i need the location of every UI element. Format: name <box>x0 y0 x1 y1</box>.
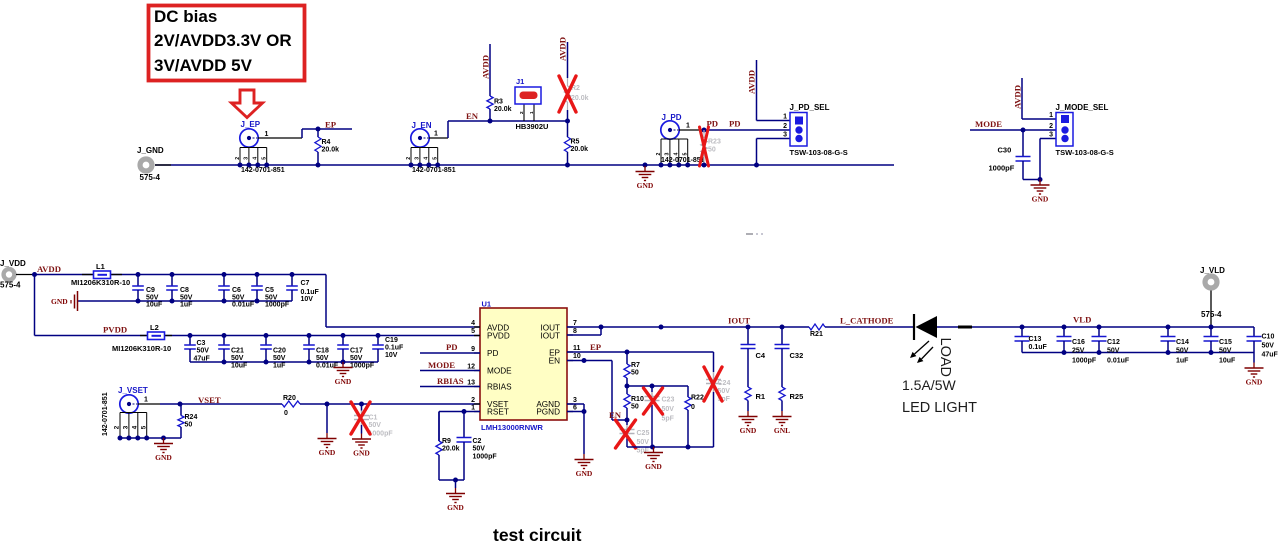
svg-text:0.01uF: 0.01uF <box>232 302 255 309</box>
svg-text:2: 2 <box>656 152 662 155</box>
svg-text:20.0k: 20.0k <box>571 146 589 153</box>
svg-text:TSW-103-08-G-S: TSW-103-08-G-S <box>790 148 848 157</box>
svg-text:TSW-103-08-G-S: TSW-103-08-G-S <box>1056 148 1114 157</box>
svg-text:3: 3 <box>573 397 577 404</box>
wire VLD cap bank bottom rail <box>1022 352 1254 354</box>
svg-text:C14: C14 <box>1176 339 1189 346</box>
svg-text:13: 13 <box>467 380 475 387</box>
svg-text:20.0k: 20.0k <box>494 106 512 113</box>
ground GND under EP network <box>653 447 655 453</box>
power AVDD above J_PD_SEL <box>756 60 758 121</box>
J_VSET footprint 142-0701-851 <box>120 412 147 414</box>
svg-text:4: 4 <box>131 425 138 429</box>
LED emission arrows <box>915 341 930 354</box>
wire VLD rail <box>1022 326 1254 328</box>
capacitor C13 <box>1020 325 1025 330</box>
svg-text:C23: C23 <box>662 397 675 404</box>
svg-text:575-4: 575-4 <box>140 173 161 182</box>
connector J_VSET <box>120 395 138 413</box>
capacitor C23 crossed out <box>651 386 653 392</box>
J_EP footprint 142-0701-851 <box>240 147 267 149</box>
svg-text:5: 5 <box>140 425 147 429</box>
svg-text:GND: GND <box>51 297 68 306</box>
wire AVDD to J_PD_SEL pin1 <box>757 120 791 122</box>
wire IOUT from pins 7/8 <box>567 326 601 328</box>
node VSET junction <box>178 402 183 407</box>
svg-text:50: 50 <box>708 147 716 154</box>
capacitor C32 <box>780 325 785 330</box>
svg-text:5pF: 5pF <box>662 416 675 423</box>
wire EP net from pin11 <box>567 351 714 353</box>
svg-text:1000pF: 1000pF <box>265 302 290 309</box>
svg-text:C20: C20 <box>273 348 286 355</box>
power AVDD above R2 <box>567 42 569 78</box>
ground GND below VSET wire <box>326 433 328 439</box>
connector J_GND <box>140 159 152 171</box>
node EN/R3 junction <box>488 119 493 124</box>
svg-text:C21: C21 <box>231 348 244 355</box>
svg-text:1000pF: 1000pF <box>1072 358 1097 365</box>
svg-text:3: 3 <box>415 157 421 160</box>
wire C10 to GND <box>1253 353 1255 363</box>
svg-text:1.5A/5W: 1.5A/5W <box>902 377 956 393</box>
svg-text:5: 5 <box>683 152 689 155</box>
svg-text:U1: U1 <box>482 300 492 309</box>
svg-text:AVDD: AVDD <box>37 264 61 274</box>
svg-text:1: 1 <box>529 111 534 114</box>
svg-text:2: 2 <box>235 157 241 160</box>
resistor R4 <box>317 129 319 137</box>
svg-text:PD: PD <box>487 349 498 358</box>
resistor R20 <box>282 401 300 407</box>
wire J_VLD to VLD rail <box>1210 291 1212 328</box>
svg-text:0: 0 <box>284 410 288 417</box>
connector J_EN <box>411 129 429 147</box>
resistor R23 crossed out <box>703 130 705 138</box>
svg-text:RSET: RSET <box>487 408 509 417</box>
svg-text:50V: 50V <box>316 355 329 362</box>
svg-text:1000pF: 1000pF <box>473 454 498 461</box>
svg-text:C5: C5 <box>265 287 274 294</box>
wire J_EN pin1 to EN net <box>429 137 449 139</box>
svg-text:C13: C13 <box>1029 336 1042 343</box>
ground GND under J_VSET <box>163 438 165 444</box>
svg-text:J_EN: J_EN <box>412 121 432 130</box>
svg-text:50V: 50V <box>273 355 286 362</box>
svg-text:50V: 50V <box>1219 348 1232 355</box>
svg-text:LMH13000RNWR: LMH13000RNWR <box>481 423 543 432</box>
ground GNL under R25 <box>781 411 783 417</box>
capacitor C30 <box>1022 130 1024 157</box>
svg-text:575-4: 575-4 <box>0 281 21 290</box>
ground GND under R1 <box>747 411 749 417</box>
svg-text:10uF: 10uF <box>231 363 248 370</box>
jumper J1 HB3902U <box>523 104 525 121</box>
svg-text:GND: GND <box>1032 195 1049 204</box>
svg-text:J_VSET: J_VSET <box>118 386 148 395</box>
svg-text:AVDD: AVDD <box>558 37 568 61</box>
svg-text:8: 8 <box>573 328 577 335</box>
svg-text:C16: C16 <box>1072 339 1085 346</box>
capacitor C24 crossed out <box>713 352 715 372</box>
wire PVDD rail <box>35 335 481 337</box>
svg-text:R7: R7 <box>631 362 640 369</box>
wire C30 to GND <box>1023 179 1040 181</box>
svg-text:10V: 10V <box>385 352 398 359</box>
svg-text:1: 1 <box>471 405 475 412</box>
svg-text:C25: C25 <box>637 430 650 437</box>
svg-text:142-0701-851: 142-0701-851 <box>241 167 285 174</box>
wire J_MODE_SEL pin3 to GND <box>1040 138 1056 140</box>
svg-text:0.01uF: 0.01uF <box>1107 358 1130 365</box>
svg-text:RBIAS: RBIAS <box>437 376 464 386</box>
svg-text:AVDD: AVDD <box>481 55 491 79</box>
svg-text:C8: C8 <box>180 287 189 294</box>
svg-text:2: 2 <box>471 397 475 404</box>
svg-text:1: 1 <box>1049 112 1053 119</box>
svg-text:50V: 50V <box>265 294 278 301</box>
resistor R7 <box>626 352 628 364</box>
svg-text:50V: 50V <box>232 294 245 301</box>
svg-text:0: 0 <box>691 404 695 411</box>
svg-text:EN: EN <box>549 357 560 366</box>
svg-text:PGND: PGND <box>536 408 560 417</box>
svg-text:DC bias: DC bias <box>154 7 217 26</box>
svg-text:LED LIGHT: LED LIGHT <box>902 400 977 416</box>
ground GND under J_MODE_SEL <box>1039 180 1041 186</box>
J_PD footprint 142-0701-851 <box>661 138 688 140</box>
svg-text:L1: L1 <box>96 262 105 271</box>
annotation red box: DC bias note <box>149 6 305 81</box>
capacitor C14 <box>1166 325 1171 330</box>
svg-text:GND: GND <box>447 503 464 512</box>
capacitor C18 <box>307 333 312 338</box>
resistor R3 <box>489 95 491 96</box>
capacitor C17 <box>341 333 346 338</box>
node EP junction <box>316 127 321 132</box>
capacitor C6 <box>222 272 227 277</box>
svg-text:50V: 50V <box>662 406 675 413</box>
svg-text:0.1uF: 0.1uF <box>385 345 404 352</box>
svg-text:L_CATHODE: L_CATHODE <box>840 316 894 326</box>
svg-text:J_GND: J_GND <box>137 146 164 155</box>
wire J_VDD to AVDD rail <box>16 274 35 276</box>
svg-text:J_PD_SEL: J_PD_SEL <box>790 103 830 112</box>
svg-text:25V: 25V <box>1072 348 1085 355</box>
diode LED load <box>913 314 915 340</box>
wire EP network bottom rail <box>627 446 714 448</box>
svg-text:11: 11 <box>573 345 581 352</box>
svg-text:J1: J1 <box>516 77 524 86</box>
connector J_MODE_SEL TSW-103-08-G-S <box>1056 113 1073 147</box>
wire AVDD rail <box>35 274 327 276</box>
wire MODE to J_MODE_SEL pin2 <box>970 129 1056 131</box>
ground GND on top bus <box>643 163 648 168</box>
svg-text:HB3902U: HB3902U <box>516 122 549 131</box>
wire R7 bottom to R22 <box>627 385 688 387</box>
svg-text:MI1206K310R-10: MI1206K310R-10 <box>71 278 130 287</box>
svg-text:GND: GND <box>1246 378 1263 387</box>
svg-text:10V: 10V <box>301 296 314 303</box>
svg-text:PD: PD <box>729 119 741 129</box>
capacitor C25 crossed out <box>626 420 628 425</box>
svg-text:2: 2 <box>114 425 121 429</box>
svg-text:2: 2 <box>406 157 412 160</box>
svg-text:10uF: 10uF <box>1219 358 1236 365</box>
capacitor C8 <box>170 272 175 277</box>
svg-text:7: 7 <box>573 320 577 327</box>
node AVDD junction <box>32 272 37 277</box>
svg-text:9: 9 <box>471 346 475 353</box>
wire J_EP pin1 to EP net <box>258 137 303 139</box>
capacitor C5 <box>255 272 260 277</box>
svg-text:R3: R3 <box>494 99 503 106</box>
svg-text:20.0k: 20.0k <box>322 147 340 154</box>
svg-text:GND: GND <box>319 448 336 457</box>
svg-text:1uF: 1uF <box>273 363 286 370</box>
svg-text:EP: EP <box>590 342 602 352</box>
svg-text:PVDD: PVDD <box>103 325 127 335</box>
svg-text:0.1uF: 0.1uF <box>301 289 320 296</box>
svg-text:0.1uF: 0.1uF <box>1029 344 1048 351</box>
wire MODE to pin12 <box>420 370 480 372</box>
svg-text:R21: R21 <box>810 331 823 338</box>
J_EN footprint 142-0701-851 <box>411 147 438 149</box>
svg-text:J_PD: J_PD <box>662 113 682 122</box>
wire J_PD pin1 to PD net <box>679 129 703 131</box>
ground GND under PVDD cap bank <box>342 362 344 368</box>
svg-text:IOUT: IOUT <box>728 316 750 326</box>
svg-text:1: 1 <box>434 131 438 138</box>
svg-text:142-0701-851: 142-0701-851 <box>661 157 705 164</box>
svg-text:test circuit: test circuit <box>493 525 582 545</box>
U1 pin stubs <box>474 326 480 328</box>
ground GND under VLD bank <box>1253 363 1255 369</box>
capacitor C4 <box>746 325 751 330</box>
resistor R10 <box>626 386 628 394</box>
resistor R2 crossed out <box>567 78 569 86</box>
resistor R22 <box>687 386 689 397</box>
svg-text:50V: 50V <box>1262 343 1275 350</box>
svg-text:5: 5 <box>262 157 268 160</box>
svg-text:MODE: MODE <box>975 119 1002 129</box>
svg-text:R24: R24 <box>185 414 198 421</box>
svg-text:142-0701-851: 142-0701-851 <box>102 392 109 436</box>
wire R21 to LED <box>825 326 914 328</box>
svg-text:GND: GND <box>576 469 593 478</box>
connector J_VDD <box>4 269 15 280</box>
svg-text:50V: 50V <box>637 439 650 446</box>
capacitor C1 crossed out <box>359 402 364 407</box>
svg-text:GND: GND <box>637 181 654 190</box>
svg-text:3V/AVDD 5V: 3V/AVDD 5V <box>154 56 253 75</box>
svg-text:EN: EN <box>466 111 479 121</box>
svg-text:2: 2 <box>519 111 524 114</box>
svg-text:20.0k: 20.0k <box>571 95 589 102</box>
svg-text:50V: 50V <box>180 294 193 301</box>
connector J_EP <box>240 129 258 147</box>
svg-text:GND: GND <box>353 449 370 458</box>
svg-text:4: 4 <box>674 152 680 155</box>
wire PVDD cap bank bottom rail <box>190 361 378 363</box>
svg-text:C30: C30 <box>998 146 1012 155</box>
ground GND under AGND/PGND <box>583 454 585 460</box>
inductor L2 MI1206K310R-10 <box>140 335 147 337</box>
node EN/R2/R5 junction <box>565 119 570 124</box>
svg-text:C6: C6 <box>232 287 241 294</box>
svg-text:1: 1 <box>686 123 690 130</box>
svg-text:3: 3 <box>244 157 250 160</box>
ground GND under R9/C2 <box>455 488 457 494</box>
svg-text:10: 10 <box>573 353 581 360</box>
svg-text:50V: 50V <box>473 446 486 453</box>
node PD junction <box>702 128 707 133</box>
svg-text:50V: 50V <box>1176 348 1189 355</box>
svg-text:4: 4 <box>253 157 259 160</box>
svg-text:1000pF: 1000pF <box>989 164 1015 173</box>
op-amp U1 LMH13000RNWR <box>480 308 567 420</box>
svg-text:EP: EP <box>325 120 337 130</box>
wire AVDD rail to IC pin4 <box>325 275 327 328</box>
svg-text:20.0k: 20.0k <box>442 446 460 453</box>
svg-text:AVDD: AVDD <box>1013 85 1023 109</box>
svg-text:R10: R10 <box>631 396 644 403</box>
svg-text:GNL: GNL <box>774 426 790 435</box>
svg-text:VSET: VSET <box>198 395 221 405</box>
power AVDD above R3 <box>489 44 491 95</box>
svg-text:C12: C12 <box>1107 339 1120 346</box>
svg-text:50: 50 <box>185 422 193 429</box>
inductor L1 MI1206K310R-10 <box>82 274 93 276</box>
resistor R25 <box>781 354 783 387</box>
connector J_VLD <box>1205 276 1217 288</box>
svg-text:R25: R25 <box>790 392 804 401</box>
svg-text:C17: C17 <box>350 348 363 355</box>
svg-text:47uF: 47uF <box>1262 352 1279 359</box>
resistor R9 <box>438 412 440 442</box>
svg-text:J_EP: J_EP <box>241 120 261 129</box>
wire J_VSET pin1 <box>138 403 161 405</box>
svg-text:50V: 50V <box>1107 348 1120 355</box>
svg-text:C19: C19 <box>385 337 398 344</box>
node R7 bottom junction <box>625 384 630 389</box>
svg-text:GND: GND <box>645 462 662 471</box>
capacitor C16 <box>1062 325 1067 330</box>
wire RBIAS to pin13 <box>420 386 480 388</box>
svg-text:12: 12 <box>467 364 475 371</box>
svg-text:J_VDD: J_VDD <box>0 259 26 268</box>
svg-text:5: 5 <box>471 328 475 335</box>
wire to GND below VSET <box>326 404 328 433</box>
annotation red arrow pointing down <box>232 90 263 118</box>
capacitor C21 <box>222 333 227 338</box>
svg-text:R23: R23 <box>708 139 721 146</box>
svg-text:1000pF: 1000pF <box>350 363 375 370</box>
svg-text:50V: 50V <box>350 355 363 362</box>
faint grey artifact <box>746 233 753 235</box>
svg-text:3: 3 <box>783 132 787 139</box>
svg-text:MI1206K310R-10: MI1206K310R-10 <box>112 344 171 353</box>
svg-text:142-0701-851: 142-0701-851 <box>412 167 456 174</box>
svg-text:R20: R20 <box>283 395 296 402</box>
resistor R5 <box>567 121 569 137</box>
svg-text:VLD: VLD <box>1073 315 1091 325</box>
wire PD to pin9 <box>420 352 480 354</box>
svg-text:47uF: 47uF <box>194 356 211 363</box>
svg-text:4: 4 <box>424 157 430 160</box>
svg-text:GND: GND <box>155 453 172 462</box>
wire EN from pin10 <box>567 360 612 362</box>
power AVDD above J_MODE_SEL <box>1021 78 1023 119</box>
svg-text:R9: R9 <box>442 438 451 445</box>
svg-text:LOAD: LOAD <box>937 338 953 378</box>
svg-text:MODE: MODE <box>428 360 455 370</box>
svg-text:50V: 50V <box>197 348 210 355</box>
svg-text:50: 50 <box>631 404 639 411</box>
wire AVDD to PVDD drop <box>34 275 36 336</box>
svg-text:5pF: 5pF <box>637 448 650 455</box>
svg-text:AVDD: AVDD <box>747 70 757 94</box>
svg-text:C2: C2 <box>473 438 482 445</box>
svg-text:0.01uF: 0.01uF <box>316 363 339 370</box>
connector J_PD <box>661 121 679 139</box>
svg-text:2: 2 <box>1049 123 1053 130</box>
svg-text:GND: GND <box>740 426 757 435</box>
svg-text:50V: 50V <box>369 422 382 429</box>
capacitor C19 <box>376 333 381 338</box>
wire AGND/PGND to GND <box>567 403 584 405</box>
wire R9/C2 bottom <box>439 479 464 481</box>
wire J_PD_SEL pin3 to bus <box>757 138 791 140</box>
svg-text:5: 5 <box>433 157 439 160</box>
svg-text:1: 1 <box>265 131 269 138</box>
svg-text:R1: R1 <box>756 392 766 401</box>
capacitor C20 <box>264 333 269 338</box>
capacitor C7 <box>290 272 295 277</box>
svg-text:C1: C1 <box>369 415 378 422</box>
svg-text:6: 6 <box>573 405 577 412</box>
svg-text:L2: L2 <box>150 323 159 332</box>
svg-text:10uF: 10uF <box>146 302 163 309</box>
svg-text:C24: C24 <box>718 380 731 387</box>
wire pin1 RSET to R9/C2 <box>439 411 480 413</box>
wire J_VSET footprint to GND <box>120 437 181 439</box>
wire VSET to IC pin2 <box>300 403 480 405</box>
svg-text:C7: C7 <box>301 280 310 287</box>
resistor R1 <box>747 354 749 387</box>
svg-text:GND: GND <box>335 377 352 386</box>
ground GND under C1 <box>361 434 363 440</box>
svg-text:J_VLD: J_VLD <box>1200 266 1225 275</box>
svg-text:1000pF: 1000pF <box>369 431 394 438</box>
svg-text:IOUT: IOUT <box>540 332 560 341</box>
svg-text:1uF: 1uF <box>1176 358 1189 365</box>
svg-text:RBIAS: RBIAS <box>487 383 512 392</box>
svg-text:2: 2 <box>783 123 787 130</box>
svg-text:R22: R22 <box>691 395 704 402</box>
connector J_PD_SEL TSW-103-08-G-S <box>790 113 807 147</box>
svg-text:J_MODE_SEL: J_MODE_SEL <box>1056 103 1109 112</box>
capacitor C3 <box>188 333 193 338</box>
wire top GND bus <box>155 164 894 166</box>
svg-text:R4: R4 <box>322 139 331 146</box>
svg-text:3: 3 <box>665 152 671 155</box>
capacitor C9 <box>136 272 141 277</box>
svg-text:R5: R5 <box>571 139 580 146</box>
node R20/GND junction <box>325 402 330 407</box>
capacitor C15 <box>1209 325 1214 330</box>
capacitor C10 <box>1253 327 1255 337</box>
